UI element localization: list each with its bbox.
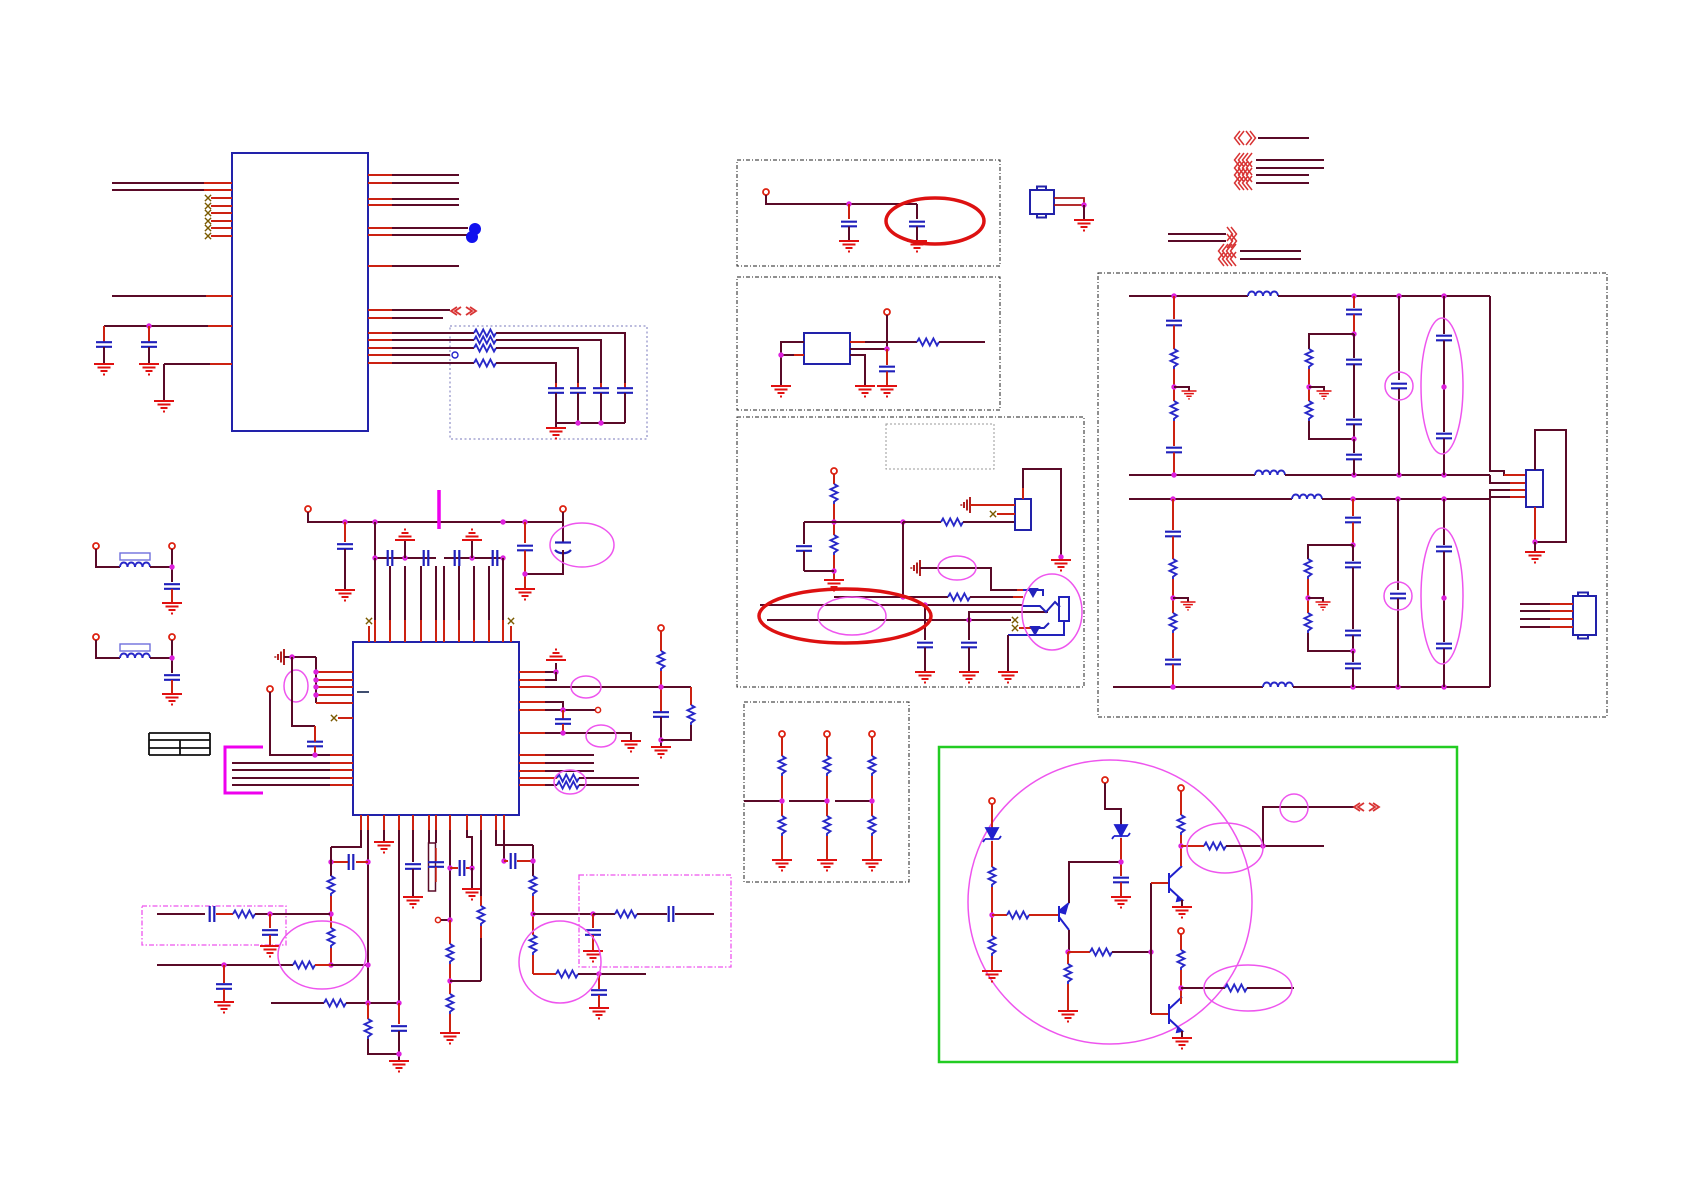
junction: [900, 519, 905, 524]
col 1398 circled cap B: [1397, 499, 1399, 590]
offpage chevron: [1235, 168, 1245, 182]
pin r5 with open circle: [519, 709, 595, 711]
wire: [826, 776, 828, 816]
wire: [1068, 951, 1090, 953]
ground: [94, 364, 114, 375]
capacitor C29: [210, 906, 215, 922]
bottom pin wire: [850, 355, 865, 386]
wire: [331, 861, 348, 863]
junction: [1178, 843, 1183, 848]
wire: [519, 784, 545, 786]
capacitor C22: [450, 867, 458, 869]
wire: [519, 784, 557, 786]
junction: [1441, 496, 1446, 501]
resistor R44 down: [1067, 952, 1069, 964]
wire: [1168, 1004, 1170, 1024]
wire: [435, 867, 437, 882]
junction: [447, 865, 452, 870]
wire: [1029, 589, 1037, 596]
ground: [1317, 391, 1332, 399]
wire: [519, 709, 545, 711]
wire: [1177, 1028, 1182, 1032]
no-connect X: [205, 225, 211, 231]
wire: [789, 800, 827, 802]
junction: [658, 737, 663, 742]
wire: [939, 341, 985, 343]
wire: [519, 686, 545, 688]
middle terminal: [1102, 777, 1108, 783]
junction: [900, 594, 905, 599]
transistor Q1 pnp: [1059, 903, 1069, 930]
circle marker: [595, 707, 600, 712]
wire: [210, 363, 232, 365]
capacitor: [1165, 660, 1181, 665]
junction: [1396, 293, 1401, 298]
ferrite bead FB2: [120, 644, 150, 651]
emitter junction wire: [1065, 949, 1070, 954]
bus bracket: [225, 747, 263, 793]
polarized cap C16: [562, 512, 564, 542]
capacitor Ca: [555, 383, 557, 388]
wire: [1059, 903, 1069, 930]
junction: [1058, 554, 1063, 559]
junction: [372, 555, 377, 560]
wire: [519, 701, 545, 703]
terminal left: [267, 686, 273, 692]
bus line3: [767, 619, 1011, 621]
wire: [1443, 341, 1445, 433]
wire: [204, 182, 232, 184]
wire: [1258, 137, 1309, 139]
wire U1 right pin6 with blue blob: [368, 234, 468, 236]
wire: [480, 926, 482, 938]
wire: [1520, 604, 1573, 627]
magenta ellipse inside: [818, 597, 886, 635]
junction: [1170, 684, 1175, 689]
ground: [1181, 602, 1196, 610]
col 1353 loop B: [1352, 499, 1354, 516]
wire: [600, 393, 602, 423]
wire: [1510, 489, 1526, 491]
ground: [462, 530, 482, 541]
wire: [871, 737, 873, 756]
wire: [1490, 490, 1526, 499]
wire: [314, 746, 316, 755]
junction: [831, 519, 836, 524]
wire: [223, 989, 225, 1002]
wire: [496, 363, 556, 383]
Q1 emitter wire: [1069, 862, 1121, 903]
resistor: [1306, 401, 1313, 421]
magenta ellipse jack: [1022, 574, 1082, 650]
wire: [1172, 665, 1174, 688]
wire: [1173, 369, 1175, 401]
ic U2: [353, 642, 519, 815]
offpage chevron: [1246, 131, 1256, 145]
element group: [369, 620, 511, 642]
col 1444 caps B: [1443, 499, 1445, 545]
nc stubs left: [211, 198, 232, 236]
wire: [886, 315, 888, 349]
wire: [435, 830, 437, 843]
resistor R34: [831, 535, 838, 555]
wire: [308, 512, 563, 522]
wire: [368, 227, 392, 229]
transistor Q3: [1169, 997, 1182, 1032]
left comb ground: [275, 649, 284, 665]
channel A top rail: [1129, 295, 1248, 297]
wire row 965: [157, 964, 293, 966]
junction: [267, 911, 272, 916]
terminal: [169, 634, 175, 640]
highlight ellipse: [1204, 965, 1292, 1011]
junction: [522, 571, 527, 576]
wire: [1120, 838, 1122, 876]
wire: [1226, 845, 1324, 847]
junction: [469, 865, 474, 870]
capacitor: [961, 643, 977, 648]
wire U1 right pin7: [368, 265, 459, 267]
pin r6 to gnd: [519, 733, 631, 740]
wire: [1022, 488, 1024, 499]
wire: [983, 836, 1001, 842]
junction: [1171, 472, 1176, 477]
wire: [1054, 204, 1084, 206]
wire: [103, 347, 105, 364]
resistor: [1305, 613, 1312, 633]
junction: [365, 962, 370, 967]
offpage chevron: [1369, 803, 1379, 811]
wire: [1443, 552, 1445, 643]
inductor L2: [1255, 471, 1285, 476]
resistor R48 output: [1181, 987, 1225, 989]
terminal: [763, 189, 769, 195]
wire at 974: [533, 973, 556, 975]
box: [1578, 635, 1588, 639]
resistor R20: [328, 876, 335, 896]
ground: [546, 650, 566, 661]
resistor: [615, 911, 637, 918]
inductor L4: [1263, 683, 1293, 688]
wire: [781, 776, 783, 816]
resistor R28: [293, 962, 315, 969]
offpage connector chevrons: [451, 307, 461, 315]
wire p11: [496, 830, 533, 845]
resistor R47: [1178, 950, 1185, 970]
wire: [624, 393, 626, 423]
wire: [781, 354, 804, 356]
wire U1 right pin8: [368, 309, 450, 311]
junction: [1350, 648, 1355, 653]
junction: [500, 519, 505, 524]
wire: [886, 372, 888, 387]
connector J8: [1526, 470, 1543, 507]
highlight ellipse: [586, 725, 616, 747]
wire: [330, 763, 353, 785]
wire: [826, 836, 828, 860]
wire: [1353, 425, 1355, 440]
vertical 368 chain: [367, 1003, 369, 1019]
ground: [817, 860, 837, 871]
channel A bottom rail: [1129, 474, 1255, 476]
wire: [968, 648, 970, 673]
ground: [162, 603, 182, 614]
wire: [496, 333, 625, 383]
junction: [1171, 293, 1176, 298]
capacitor C12: [424, 550, 429, 566]
capacitor: [917, 643, 933, 648]
cap row wire: [375, 522, 503, 558]
junction: [1441, 293, 1446, 298]
junction: [169, 564, 174, 569]
wire: [1173, 453, 1175, 476]
Q2 emitter gnd: [1181, 900, 1183, 907]
no-connect X: [205, 210, 211, 216]
ground: [589, 1008, 609, 1019]
wire: [330, 948, 332, 965]
ground: [1525, 552, 1545, 563]
wire: [826, 737, 828, 756]
wire: [1083, 205, 1085, 220]
wire 965 to vertical: [331, 964, 368, 966]
junction: [560, 730, 565, 735]
junction: [372, 519, 377, 524]
wires: [1054, 198, 1084, 205]
ground: [374, 842, 394, 853]
ground: [651, 747, 671, 758]
junction: [313, 692, 318, 697]
junction: [1148, 949, 1153, 954]
wire: [150, 566, 172, 568]
wire: [833, 504, 835, 535]
cap C25: [669, 906, 674, 922]
Q2 collector chain: [1178, 785, 1184, 791]
cap C33: [886, 349, 888, 365]
capacitor: [591, 990, 607, 995]
X marks: [205, 195, 211, 201]
wire p3 ground: [383, 830, 385, 842]
no-connect X: [508, 618, 514, 624]
ground: [1172, 1038, 1192, 1049]
wire: [991, 841, 993, 867]
junction: [1118, 859, 1123, 864]
resistor R31: [233, 911, 255, 918]
bottom right: terminal: [1178, 928, 1184, 934]
wire: [1177, 897, 1182, 901]
resistor R23: [447, 994, 454, 1014]
wire: [1398, 389, 1400, 476]
wire: [171, 680, 173, 694]
wire: [1180, 997, 1182, 1004]
junction: [779, 798, 784, 803]
pink dashed box left: [142, 906, 286, 945]
resistor: [688, 705, 695, 725]
resistor R25: [530, 935, 537, 955]
wire: [1353, 460, 1355, 476]
resistor R36: [948, 594, 970, 601]
resistor: [1170, 559, 1177, 579]
regulator U3: [804, 333, 850, 364]
magenta net marker: [437, 490, 441, 529]
capacitor: [909, 222, 925, 227]
box: [1578, 593, 1588, 597]
connector J6: [1015, 499, 1031, 530]
wire: [562, 724, 564, 733]
junction: [1305, 595, 1310, 600]
junction: [596, 971, 601, 976]
capacitor C10: [344, 522, 346, 542]
capacitor C2: [148, 326, 150, 342]
terminal: [169, 543, 175, 549]
capacitor: [548, 388, 564, 393]
bus line1: [834, 596, 948, 598]
resistor Re: [474, 360, 496, 367]
wire: [871, 836, 873, 860]
wire: [315, 964, 331, 966]
capacitor: [349, 854, 354, 870]
wire: [480, 926, 482, 981]
wire: [150, 657, 172, 659]
circle marker: [1384, 582, 1412, 610]
row dots: [402, 555, 407, 560]
wire: [368, 182, 392, 184]
wire: [1019, 627, 1032, 629]
loop from connector top: [1023, 469, 1061, 557]
wire: [330, 754, 353, 756]
resistor: [447, 944, 454, 964]
flag gnd stub: [1174, 387, 1189, 391]
junction: [1178, 985, 1183, 990]
wire: [850, 341, 865, 343]
wire: [524, 551, 526, 590]
divider 2: [824, 731, 830, 737]
ground: [982, 971, 1002, 982]
cap C17: [307, 742, 323, 747]
cap C15 right: [524, 522, 526, 543]
wire: [368, 265, 392, 267]
wire: [369, 626, 511, 642]
capacitor: [841, 222, 857, 227]
wire: [660, 717, 662, 747]
bottom pin stubs red: [361, 815, 504, 830]
offpage chevron: [1227, 227, 1237, 241]
ground: [824, 580, 844, 591]
wire: [517, 860, 533, 862]
wire: [744, 800, 782, 802]
wire: [1067, 984, 1069, 1011]
dotted box: [737, 160, 1000, 266]
right column verticals: [1150, 883, 1152, 1014]
wire: [598, 995, 600, 1008]
wire: [1169, 997, 1182, 1031]
offpage chevron: [1354, 803, 1364, 811]
resistor R41: [989, 936, 996, 956]
wire: [368, 174, 392, 176]
junction: [575, 420, 580, 425]
cap C35: [924, 605, 926, 640]
resistor R12: [557, 775, 579, 782]
offpage chevron: [1235, 161, 1245, 175]
resistor R26: [593, 913, 615, 915]
resistor: [1171, 349, 1178, 369]
ground: [260, 946, 280, 957]
ground: [959, 672, 979, 683]
wire: [206, 295, 232, 297]
resistor R42 to base: [992, 914, 1007, 916]
pins r10 r11 through resistors: [519, 777, 557, 779]
wire: [991, 956, 993, 971]
element group: [1520, 604, 1573, 627]
capacitor: [1346, 310, 1362, 315]
junction: [1351, 293, 1356, 298]
wire: [1504, 474, 1526, 476]
capacitor: [1345, 563, 1361, 568]
junction: [1396, 472, 1401, 477]
wire: [1172, 537, 1174, 560]
capacitor: [1345, 664, 1361, 669]
wire: [850, 348, 887, 350]
resistor R24: [530, 876, 537, 896]
resistor R43: [1090, 949, 1112, 956]
ground: [1074, 220, 1094, 231]
channel B bottom rail: [1113, 686, 1263, 688]
dotted box: [737, 417, 1084, 687]
ground: [154, 401, 174, 412]
left vertical chain: [330, 847, 332, 876]
wire: [532, 896, 534, 935]
wire: [361, 815, 504, 830]
ground: [1182, 391, 1197, 399]
capacitor: [1346, 360, 1362, 365]
capacitor: [593, 388, 609, 393]
resistor R33: [831, 484, 838, 504]
wire: [532, 955, 534, 974]
wire: [1007, 635, 1009, 672]
divider 1: [779, 731, 785, 737]
magenta circle highlight: [519, 921, 601, 1003]
dotted box: [1098, 273, 1607, 717]
capacitor: [164, 584, 180, 589]
wire: [346, 1002, 399, 1004]
wire: [1256, 167, 1324, 169]
junction: [1395, 684, 1400, 689]
wire: [1307, 579, 1309, 613]
wire: [1180, 835, 1182, 866]
wire: [1352, 523, 1354, 546]
wire: [1168, 240, 1226, 242]
ground: [583, 951, 603, 962]
comb drop wire: [292, 657, 315, 726]
pin r3 long: [519, 686, 691, 688]
wire: [1173, 598, 1188, 602]
X stub: [990, 511, 996, 517]
wire: [794, 354, 804, 356]
resistor R49: [478, 906, 485, 926]
col 1444 caps: [1443, 296, 1445, 334]
connector J5: [1030, 190, 1054, 214]
wire: [1180, 970, 1182, 1003]
capacitor C13: [455, 550, 460, 566]
inductor: [120, 654, 150, 659]
wire: [1008, 621, 1064, 635]
filter2 terminal: [93, 634, 99, 640]
element group: [519, 755, 545, 771]
ground: [1051, 560, 1071, 571]
channel B top rail: [1129, 498, 1292, 500]
wire: [660, 671, 662, 712]
ellipse highlight cap: [550, 523, 614, 567]
wire: [1168, 873, 1170, 893]
